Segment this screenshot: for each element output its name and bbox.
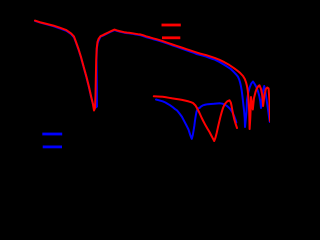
inset plot: red resonance dip curve — [154, 96, 237, 141]
legend red sample bar 2 — [162, 36, 180, 39]
inset plot: blue resonance dip curve — [156, 100, 236, 139]
main plot: blue transmission spectrum curve — [35, 21, 270, 127]
legend red sample bar 1 — [162, 24, 181, 27]
main plot: red transmission spectrum curve — [35, 21, 270, 129]
legend blue sample bar 2 — [43, 146, 62, 149]
legend blue sample bar 1 — [42, 133, 62, 136]
